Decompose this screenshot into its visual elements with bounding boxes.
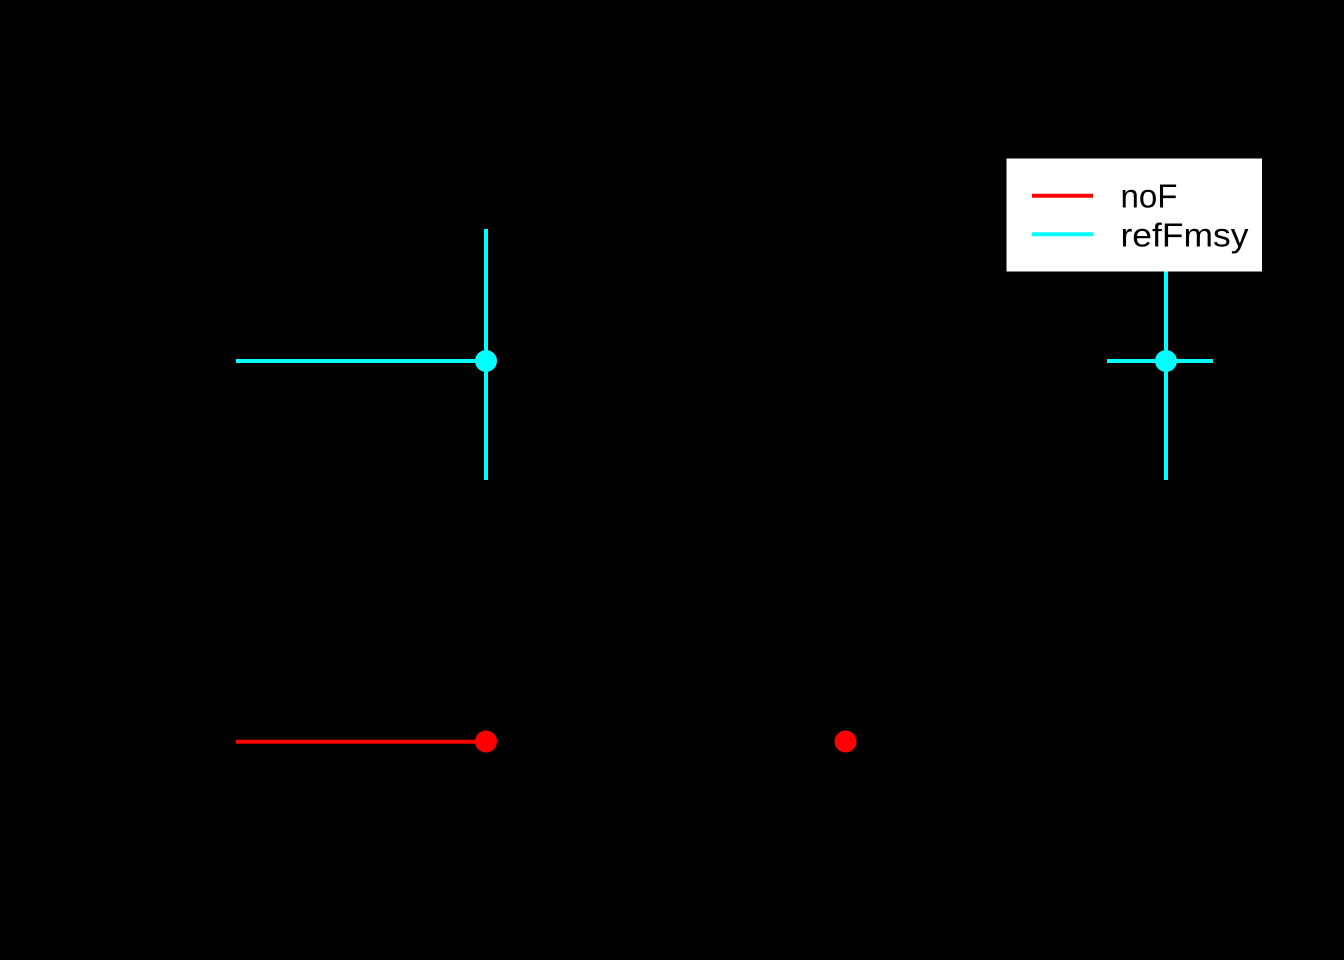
svg-text:refFmsy: refFmsy [1121, 216, 1250, 253]
svg-text:noF: noF [1121, 177, 1178, 214]
